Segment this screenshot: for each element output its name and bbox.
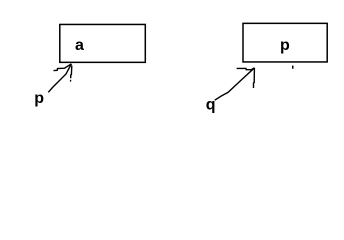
- arrow P: left barb: [54, 64, 72, 71]
- arrow Q: lower barb: [253, 68, 256, 88]
- box B (right rectangle): [243, 23, 327, 62]
- arrow Q: left barb: [237, 68, 255, 70]
- svg-text:q: q: [206, 97, 216, 114]
- svg-text:p: p: [280, 37, 290, 54]
- arrow P: lower barb: [71, 66, 72, 79]
- svg-text:a: a: [75, 37, 84, 54]
- tick mark (small stray stroke below right box): [292, 66, 294, 69]
- arrow P: shaft: [48, 64, 71, 92]
- arrow P: stray dot below lower barb: [70, 80, 71, 82]
- svg-text:p: p: [34, 90, 44, 107]
- arrow Q: shaft: [215, 68, 255, 100]
- box A (left rectangle): [60, 24, 146, 62]
